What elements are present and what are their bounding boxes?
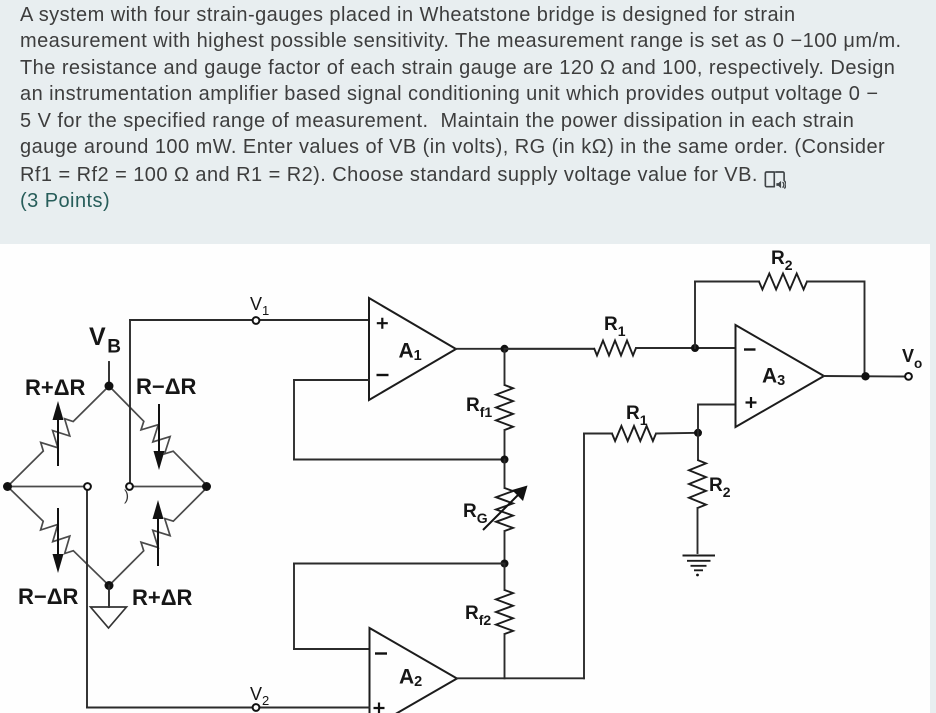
resistor R2 (to ground) — [689, 460, 706, 508]
svg-text:R−ΔR: R−ΔR — [136, 374, 197, 399]
strain gauge R+dR bottom-right arm of bridge — [109, 487, 208, 586]
A1 minus input sign — [377, 374, 389, 376]
junction A1 output node — [501, 345, 509, 353]
wire A3 output to Vo — [824, 375, 905, 378]
svg-text:Rf2: Rf2 — [465, 603, 491, 628]
op-amp A1 triangle — [369, 298, 456, 400]
svg-text:R+ΔR: R+ΔR — [25, 375, 86, 400]
wire A2 feedback left vertical — [293, 564, 295, 650]
op-amp A2 triangle — [370, 628, 458, 713]
wire bridge right vertex to right output tap — [134, 486, 207, 488]
svg-text:R1: R1 — [604, 314, 626, 339]
wire V1 node to A1 noninverting input — [130, 319, 369, 321]
junction bridge left vertex — [3, 482, 12, 491]
wire node up to A3 plus input — [698, 405, 736, 433]
wire A1 inverting input — [294, 379, 369, 381]
arrow on top-left gauge (up) — [57, 420, 59, 466]
strain gauge R+dR top-left arm of bridge — [8, 386, 110, 487]
svg-text:A1: A1 — [399, 340, 422, 365]
wire Rf1 to node — [504, 430, 506, 460]
svg-text:R−ΔR: R−ΔR — [18, 584, 79, 609]
svg-text:): ) — [124, 488, 129, 505]
svg-text:R2: R2 — [771, 248, 793, 273]
ground symbol under R2 (hatched) — [683, 556, 716, 571]
arrow across RG — [483, 495, 518, 530]
resistor RG (adjustable) — [496, 488, 513, 531]
svg-text:R2: R2 — [709, 475, 731, 500]
junction bridge bottom vertex — [105, 581, 114, 590]
strain gauge R-dR bottom-left arm of bridge — [8, 487, 110, 586]
wire A2 feedback top from node — [294, 563, 505, 565]
junction output node — [861, 372, 869, 380]
arrow on bottom-right gauge (up) — [157, 519, 159, 566]
junction Rf1/RG node — [501, 456, 509, 464]
arrow on bottom-left gauge (down) — [57, 508, 59, 554]
wire V2 rail into A2 noninverting input — [87, 707, 370, 709]
wire feedback up from minus node — [694, 282, 696, 349]
wire A1 output node down to Rf1 — [504, 349, 506, 385]
junction A3 plus input node — [694, 429, 702, 437]
svg-text:R+ΔR: R+ΔR — [132, 585, 193, 610]
svg-text:RG: RG — [463, 501, 488, 526]
wire A1 feedback left vertical — [293, 380, 295, 460]
wire node down to RG — [504, 460, 506, 489]
junction bridge right vertex — [202, 482, 211, 491]
A1 plus input sign — [377, 318, 388, 329]
ground symbol under bridge (open triangle) — [91, 607, 127, 628]
junction bridge top node (VB) — [105, 382, 114, 391]
wire VB lead into bridge top node — [108, 362, 110, 386]
A2 plus input sign — [374, 703, 385, 713]
A2 minus input sign — [375, 652, 387, 654]
wire bridge left vertex to left output tap — [8, 486, 85, 488]
wire V1 from bridge right tap up — [129, 320, 131, 483]
wire R2 to ground — [697, 508, 699, 553]
wire A2 output — [457, 677, 584, 679]
wire RG to lower node — [504, 531, 506, 564]
arrow on top-right gauge (down) — [158, 404, 160, 451]
wire upper R1 to A3 minus input — [636, 347, 736, 349]
A3 minus input sign — [744, 348, 756, 350]
wire node down to R2 — [697, 433, 699, 460]
svg-text:R1: R1 — [626, 403, 648, 428]
junction RG/Rf2 node — [501, 560, 509, 568]
wire to lower R1 — [584, 433, 612, 435]
wire A1 output — [456, 348, 594, 350]
wire A2 output up right vertical — [583, 434, 585, 679]
wire R2 to output vertical — [807, 282, 865, 377]
wire A1 feedback bottom to Rf1 node — [294, 459, 505, 461]
wire Rf2 to A2 output rail — [504, 634, 506, 678]
op-amp A3 triangle — [736, 325, 825, 427]
svg-text:Vo: Vo — [902, 346, 922, 371]
node left bridge tap (open circle) — [84, 483, 91, 490]
junction A3 minus input node — [691, 344, 699, 352]
svg-text:A3: A3 — [762, 365, 785, 390]
svg-text:V1: V1 — [250, 294, 269, 318]
svg-text:VB: VB — [89, 323, 121, 358]
resistor Rf1 — [496, 385, 513, 430]
node V2 terminal (open circle) — [253, 704, 260, 711]
node V1 terminal (open circle) — [253, 317, 260, 324]
wire bridge bottom node to ground — [108, 586, 110, 608]
wire left tap down to V2 rail — [86, 491, 88, 708]
wire lower node down to Rf2 — [504, 564, 506, 591]
node Vo terminal (open circle) — [905, 373, 912, 380]
wire upper R1 input from A1 output node — [505, 348, 595, 350]
resistor R2 (feedback) — [759, 274, 807, 290]
svg-text:A2: A2 — [399, 666, 422, 691]
wire feedback top to R2 — [695, 281, 759, 283]
A3 plus input sign — [746, 397, 757, 408]
node right bridge tap (open circle) — [126, 483, 133, 490]
wire A2 inverting input — [294, 648, 370, 650]
resistor R1 (upper) — [594, 341, 636, 356]
resistor Rf2 — [496, 590, 513, 634]
strain gauge R-dR top-right arm of bridge — [109, 386, 208, 487]
wire lower R1 to A3 plus node — [656, 432, 698, 435]
resistor R1 (lower) — [612, 426, 656, 441]
svg-text:Rf1: Rf1 — [466, 395, 492, 420]
immersive reader icon — [764, 170, 786, 190]
circuit figure white panel — [0, 244, 930, 713]
